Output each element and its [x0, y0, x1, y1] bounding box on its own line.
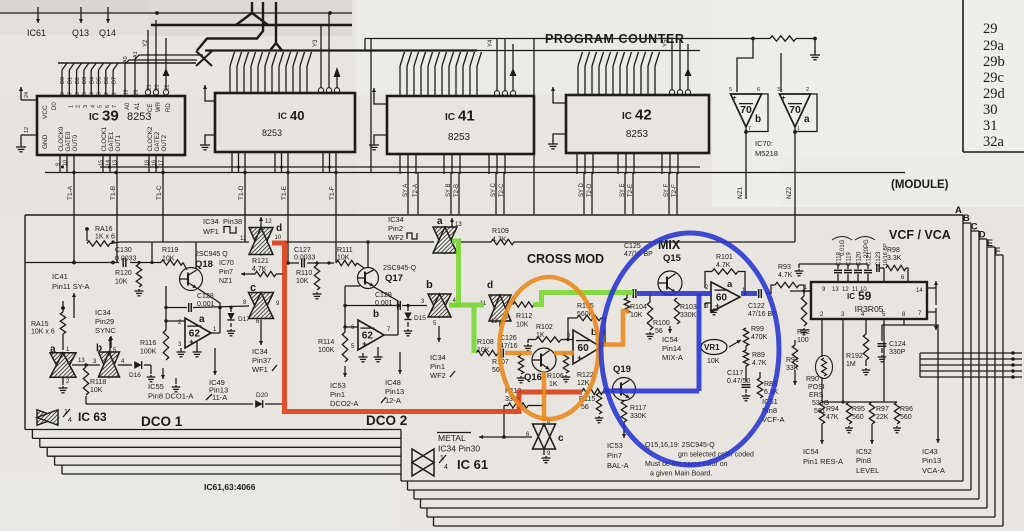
- svg-text:56: 56: [581, 404, 589, 411]
- svg-text:23: 23: [154, 84, 160, 90]
- svg-text:12: 12: [24, 127, 30, 133]
- svg-text:330P: 330P: [889, 349, 906, 356]
- IC U59 pin14 arrow: [927, 281, 938, 305]
- text IC49 Pin13 11-A: [206, 378, 228, 402]
- net label SYB: [446, 183, 452, 197]
- wire bus mid horizontal: [205, 49, 477, 51]
- svg-text:R101: R101: [716, 254, 733, 261]
- op-amp U62b: [358, 309, 384, 350]
- IC U40 body: [215, 93, 355, 152]
- text IC48 Pin13 12-A: [381, 378, 404, 405]
- svg-text:GATE2: GATE2: [154, 131, 161, 151]
- switch U34a top: [433, 216, 462, 253]
- text IC34 Pin29 SYNC: [95, 308, 116, 335]
- bus junction dots: [61, 166, 338, 175]
- resistor R119: [161, 247, 183, 265]
- op-amp U60a pins: [705, 285, 746, 310]
- svg-text:0.0033: 0.0033: [115, 256, 137, 263]
- svg-text:4.7K: 4.7K: [778, 272, 793, 279]
- capacitor C125: [624, 243, 653, 298]
- text IC41 Pin11 SY-A: [52, 272, 90, 291]
- svg-text:8: 8: [60, 92, 66, 95]
- resistor R98: [886, 247, 908, 282]
- svg-text:C130: C130: [115, 247, 132, 254]
- svg-text:70: 70: [789, 104, 801, 116]
- list of sheet numbers: [983, 21, 1006, 150]
- orange highlight path BAL a: [505, 351, 574, 356]
- resistor R118: [83, 367, 106, 395]
- wire U59 pin5 down: [883, 319, 885, 402]
- net label T1-D: [238, 185, 245, 200]
- svg-text:56: 56: [655, 328, 663, 335]
- svg-text:D7: D7: [111, 77, 117, 84]
- wire DCO2 input: [286, 261, 334, 265]
- wire IC70b pin5 riser: [737, 39, 753, 93]
- svg-text:12K: 12K: [577, 380, 590, 387]
- wire top long horizontal: [365, 38, 753, 40]
- svg-text:T1-C: T1-C: [156, 185, 163, 200]
- svg-text:330K: 330K: [630, 413, 647, 420]
- svg-text:32a: 32a: [983, 134, 1005, 150]
- svg-text:IC: IC: [89, 112, 99, 123]
- capacitor C124: [878, 325, 906, 362]
- resistor R112: [513, 302, 534, 329]
- svg-text:3: 3: [83, 105, 89, 108]
- wire IC53 arrow: [343, 366, 347, 377]
- svg-text:IC54: IC54: [803, 447, 819, 456]
- ground U62a inputs: [172, 342, 202, 392]
- svg-text:R192: R192: [846, 353, 863, 360]
- transistor Q19: [613, 364, 636, 401]
- svg-text:T1-B: T1-B: [110, 186, 117, 200]
- svg-text:C126: C126: [500, 335, 517, 342]
- svg-text:D5: D5: [97, 77, 103, 84]
- resistor R102: [524, 324, 573, 351]
- svg-text:C129: C129: [375, 292, 392, 299]
- svg-text:12-A: 12-A: [385, 396, 401, 405]
- resistor R110: [296, 263, 322, 299]
- IC U59 bottom pin numbers: [820, 312, 906, 318]
- svg-text:D2: D2: [75, 77, 81, 84]
- svg-text:IC: IC: [278, 111, 288, 121]
- wire DCO1 input: [25, 242, 161, 264]
- svg-text:IC: IC: [622, 111, 632, 122]
- svg-text:+: +: [362, 340, 367, 349]
- svg-text:T1-F: T1-F: [329, 186, 336, 200]
- svg-text:IC54: IC54: [662, 335, 678, 344]
- IC U41 VCC pin: [372, 88, 387, 104]
- svg-text:D15: D15: [414, 315, 426, 322]
- IC U42 control pins: [669, 39, 691, 95]
- net label SYF: [664, 183, 670, 197]
- svg-text:IC61,63:4066: IC61,63:4066: [204, 482, 256, 492]
- svg-text:LEVEL: LEVEL: [856, 466, 879, 475]
- text IC43 Pin13 VCA-A: [922, 447, 945, 475]
- IC U39 bottom pin wires: [60, 155, 163, 263]
- svg-text:7: 7: [112, 105, 118, 108]
- svg-text:GATE0: GATE0: [65, 131, 72, 151]
- resistor R91: [786, 340, 799, 385]
- op-amp U60b: [573, 327, 601, 364]
- svg-text:10: 10: [275, 235, 282, 241]
- resistor R92: [797, 291, 810, 344]
- wire SYNC arrow up: [72, 293, 76, 318]
- wire U62b output: [384, 334, 398, 336]
- svg-text:R119: R119: [162, 247, 178, 254]
- svg-text:CLOCK0: CLOCK0: [58, 126, 65, 151]
- svg-text:D1: D1: [68, 77, 74, 84]
- svg-text:d: d: [276, 223, 282, 234]
- wire D-bus (thick) to IC39: [58, 62, 196, 64]
- wire bus junction dot: [155, 11, 332, 15]
- svg-text:C117: C117: [727, 370, 743, 377]
- wire U34c out arrow: [259, 320, 263, 345]
- svg-text:R122: R122: [577, 372, 594, 379]
- IC U41 data pin fan: [400, 52, 482, 96]
- svg-text:NZ2: NZ2: [786, 186, 793, 199]
- op-amp U62b pins: [351, 325, 391, 350]
- svg-text:2: 2: [104, 92, 110, 95]
- resistor R108: [476, 339, 498, 356]
- IC U40 GND pin: [200, 135, 215, 150]
- svg-text:Q17: Q17: [385, 273, 403, 284]
- svg-text:8253: 8253: [262, 128, 282, 138]
- svg-text:Pin29: Pin29: [95, 317, 114, 326]
- wire IC55 arrow: [161, 368, 165, 379]
- svg-text:D: D: [979, 230, 986, 241]
- svg-text:IR3R05: IR3R05: [855, 304, 884, 314]
- svg-text:IC52: IC52: [856, 447, 872, 456]
- svg-text:6: 6: [105, 105, 111, 108]
- svg-text:C122: C122: [748, 303, 765, 310]
- IC U42 VCC pin: [551, 87, 566, 103]
- IC U42 body: [566, 95, 709, 153]
- svg-text:MIX-A: MIX-A: [662, 353, 683, 362]
- svg-text:10K: 10K: [337, 255, 350, 262]
- svg-text:A0: A0: [123, 56, 129, 63]
- net NZ2: [786, 132, 795, 242]
- svg-text:11-A: 11-A: [212, 393, 227, 402]
- wire bus crossover X: [196, 51, 212, 66]
- capacitor C129: [375, 292, 400, 310]
- IC U39 label: [89, 108, 151, 125]
- wire U62a output: [211, 332, 220, 334]
- IC U41 body: [387, 96, 534, 154]
- IC U59 pin1 wire: [790, 290, 811, 292]
- resistor R122: [577, 372, 603, 395]
- resistor R106: [547, 353, 570, 388]
- svg-text:NZ1: NZ1: [737, 186, 744, 199]
- blue ellipse around MIX: [601, 233, 779, 465]
- switch U34d: [249, 223, 282, 255]
- capacitor C126: [500, 335, 518, 358]
- switch U63b pins: [93, 337, 125, 365]
- svg-text:+: +: [189, 338, 194, 347]
- resistor above IC70: [751, 36, 817, 41]
- switch U34d2 pins: [480, 300, 516, 327]
- svg-text:IC 61: IC 61: [457, 457, 488, 472]
- svg-text:Q14: Q14: [99, 28, 116, 38]
- resistor R94: [819, 402, 839, 444]
- svg-text:IC41: IC41: [52, 272, 68, 281]
- IC U39 VCC rotated label: [42, 105, 49, 119]
- svg-text:c: c: [250, 282, 256, 294]
- svg-text:R98: R98: [887, 247, 900, 254]
- svg-text:1: 1: [68, 105, 74, 108]
- wire U59 pin3 down: [841, 319, 844, 404]
- svg-text:Pin1: Pin1: [330, 390, 345, 399]
- svg-text:D0: D0: [60, 77, 66, 84]
- svg-text:VCA-A: VCA-A: [922, 466, 945, 475]
- IC U39 pin24 VCC: [19, 87, 37, 100]
- net label T1-B: [110, 186, 117, 200]
- net label SYA: [403, 184, 409, 197]
- svg-text:R97: R97: [876, 406, 889, 413]
- svg-text:10K x 6: 10K x 6: [31, 329, 55, 336]
- svg-text:100: 100: [797, 337, 809, 344]
- svg-text:IC61: IC61: [27, 28, 46, 38]
- wire counter output bus 2: [100, 166, 700, 168]
- svg-text:Pin1: Pin1: [430, 362, 445, 371]
- svg-text:+: +: [715, 302, 720, 311]
- net label T2-E: [628, 184, 634, 197]
- diode D20 wire: [86, 392, 282, 408]
- switch U63 quarter: [37, 410, 58, 426]
- wire bus mid horizontal 2: [477, 50, 700, 52]
- IC U41 label: [445, 108, 475, 144]
- wire data bus riser 1: [236, 2, 268, 25]
- wire data bus jog: [197, 2, 263, 51]
- svg-text:10K: 10K: [516, 322, 529, 329]
- svg-text:1K x 6: 1K x 6: [95, 234, 115, 241]
- wire RA16 to U34d: [110, 240, 434, 243]
- IC U42 bottom pin wires: [577, 153, 678, 174]
- title MIX: [658, 238, 681, 252]
- svg-text:Pin7: Pin7: [219, 269, 233, 276]
- net label T2-D: [587, 183, 593, 197]
- svg-text:0.001: 0.001: [197, 301, 215, 308]
- svg-text:56: 56: [492, 367, 500, 374]
- svg-text:RA15: RA15: [31, 321, 49, 328]
- title VCF VCA: [889, 228, 951, 242]
- svg-text:R110: R110: [296, 270, 312, 277]
- IC U41 control pins: [494, 39, 516, 96]
- switch U61c: [533, 424, 565, 449]
- IC U41 bottom pin wires: [400, 154, 505, 174]
- capacitor C127: [294, 247, 316, 268]
- svg-text:D0: D0: [52, 102, 58, 110]
- svg-text:3.3K: 3.3K: [887, 255, 902, 262]
- net NZ1: [737, 132, 746, 199]
- svg-text:47K: 47K: [826, 414, 839, 421]
- svg-text:c: c: [558, 433, 564, 444]
- svg-text:B: B: [963, 213, 970, 224]
- module sheet A left border: [24, 215, 26, 430]
- svg-text:R104: R104: [630, 304, 647, 311]
- svg-text:IC 63: IC 63: [78, 410, 107, 424]
- svg-text:8253: 8253: [448, 132, 471, 143]
- capacitor C117: [727, 366, 751, 401]
- svg-text:R118: R118: [90, 379, 106, 386]
- text IC70 Pin7 NZ1: [219, 260, 234, 285]
- IC U59 side pin numbers: [804, 285, 923, 317]
- IC U39 data pins D0-D7: [60, 63, 118, 96]
- svg-text:R116: R116: [140, 340, 156, 347]
- svg-text:IC43: IC43: [922, 447, 938, 456]
- svg-text:1M: 1M: [846, 361, 856, 368]
- capacitor C123: [876, 243, 889, 282]
- svg-text:a: a: [437, 216, 443, 227]
- wire resistors bus: [822, 401, 897, 403]
- vertical separator wire a: [370, 39, 372, 173]
- svg-text:A: A: [955, 205, 962, 216]
- list box border: [963, 0, 1024, 152]
- text METAL IC34 Pin30: [437, 433, 480, 454]
- svg-text:29a: 29a: [983, 38, 1005, 54]
- svg-text:VCF-A: VCF-A: [762, 415, 785, 424]
- svg-text:IC34: IC34: [252, 347, 268, 356]
- svg-text:DCO2-A: DCO2-A: [330, 399, 358, 408]
- svg-text:3: 3: [97, 92, 103, 95]
- svg-text:R103: R103: [680, 304, 697, 311]
- svg-text:F: F: [995, 246, 1001, 257]
- svg-text:10K: 10K: [630, 312, 643, 319]
- wire module output lines: [920, 351, 1022, 379]
- wire Q17 collector: [367, 242, 369, 268]
- svg-text:10: 10: [860, 287, 867, 293]
- transistor Q15: [658, 253, 682, 295]
- svg-text:29: 29: [983, 21, 998, 37]
- text IC61 63 4066: [204, 482, 256, 492]
- svg-text:29c: 29c: [983, 70, 1004, 86]
- node Q13 feed arrow: [72, 7, 89, 38]
- svg-text:5: 5: [82, 92, 88, 95]
- svg-text:OUT0: OUT0: [72, 134, 79, 151]
- svg-text:METAL: METAL: [438, 433, 466, 443]
- resistor RA16: [85, 226, 115, 246]
- resistor R93: [766, 264, 811, 294]
- svg-text:CLOCK1: CLOCK1: [101, 126, 108, 151]
- title DCO 1: [141, 414, 183, 429]
- svg-text:T1-A: T1-A: [67, 185, 74, 200]
- op-amp U60a: [711, 279, 740, 312]
- svg-text:12: 12: [265, 219, 272, 225]
- svg-text:12: 12: [491, 319, 498, 325]
- svg-text:PROGRAM COUNTER: PROGRAM COUNTER: [545, 32, 685, 46]
- svg-text:R114: R114: [318, 339, 334, 346]
- switch U34d pins: [240, 217, 282, 242]
- svg-text:(MODULE): (MODULE): [891, 179, 949, 191]
- capacitors C118-C121: [795, 251, 873, 282]
- svg-text:RD: RD: [166, 103, 172, 112]
- title CROSS MOD: [527, 252, 604, 266]
- resistor R101: [705, 254, 747, 295]
- svg-text:IC34: IC34: [95, 308, 111, 317]
- svg-text:10K: 10K: [296, 278, 309, 285]
- switch U61 quarter: [412, 449, 434, 476]
- text IC34 Pin1 WF2: [430, 353, 455, 380]
- svg-text:POSI: POSI: [808, 384, 825, 391]
- text IC55 Pin8 DCO1-A: [148, 382, 193, 401]
- svg-text:39: 39: [102, 108, 119, 125]
- svg-text:Q15: Q15: [663, 253, 682, 264]
- svg-text:C123: C123: [876, 251, 882, 266]
- svg-text:D4: D4: [89, 77, 95, 84]
- wire counter output bus 1: [45, 172, 905, 174]
- green highlight path WF2 b: [449, 305, 484, 353]
- switch U34c: [249, 282, 274, 319]
- svg-text:Pin13: Pin13: [385, 387, 404, 396]
- IC U59 body: [811, 282, 927, 319]
- net Y4 label: [488, 39, 494, 47]
- capacitor C130: [115, 247, 137, 267]
- resistor R89: [743, 346, 766, 367]
- wire IC48 arrow: [398, 352, 402, 374]
- svg-text:Pin2: Pin2: [388, 224, 403, 233]
- IC U39 GND rotated label: [42, 134, 49, 149]
- svg-text:d: d: [487, 280, 493, 291]
- svg-text:10K: 10K: [115, 279, 128, 286]
- svg-text:R89: R89: [752, 352, 765, 359]
- switch U34b mid: [426, 279, 451, 317]
- svg-text:R96: R96: [900, 406, 913, 413]
- svg-text:R100: R100: [653, 320, 670, 327]
- svg-text:OUT1: OUT1: [115, 134, 122, 151]
- svg-text:D20: D20: [256, 392, 268, 399]
- svg-text:IC34: IC34: [388, 215, 404, 224]
- op-amp U60b pins: [567, 333, 607, 349]
- module sheet letters A-F: [955, 205, 1001, 257]
- wire C128 node: [166, 306, 249, 310]
- svg-text:C128: C128: [197, 293, 214, 300]
- switch U34c pins: [243, 300, 280, 325]
- svg-text:A1: A1: [133, 51, 139, 58]
- svg-text:D16: D16: [129, 372, 141, 379]
- svg-text:11: 11: [240, 236, 247, 242]
- blue highlight path MIX vert: [603, 294, 699, 392]
- text IC53 Pin1 DCO2-A: [330, 381, 358, 408]
- svg-text:21: 21: [146, 84, 152, 90]
- wire a-b link: [72, 363, 100, 367]
- svg-text:R109: R109: [492, 228, 509, 235]
- svg-text:IC34 Pin38: IC34 Pin38: [203, 217, 242, 226]
- IC U40 bottom pin wires: [232, 152, 336, 263]
- svg-text:40: 40: [290, 108, 304, 123]
- svg-text:41: 41: [458, 108, 475, 125]
- svg-text:D6: D6: [104, 77, 110, 84]
- svg-text:+: +: [577, 354, 582, 363]
- IC U42 GND pin: [548, 134, 566, 149]
- svg-text:42: 42: [635, 107, 652, 124]
- module sheets step connectors: [401, 430, 434, 527]
- svg-text:ERS: ERS: [809, 392, 824, 399]
- svg-text:Q15,16,19: 2SC945-Q: Q15,16,19: 2SC945-Q: [645, 442, 715, 449]
- green highlight path WF2 a: [449, 241, 459, 305]
- svg-text:+: +: [782, 95, 786, 102]
- net label T1-E: [281, 185, 288, 200]
- svg-text:WF2: WF2: [430, 371, 446, 380]
- resistor R105: [566, 303, 605, 344]
- svg-text:Pin8 DCO1-A: Pin8 DCO1-A: [148, 392, 193, 401]
- svg-text:47/16: 47/16: [500, 343, 518, 350]
- svg-text:R102: R102: [536, 324, 553, 331]
- net Y3 label: [313, 39, 319, 47]
- svg-text:CLOCK2: CLOCK2: [147, 126, 154, 151]
- svg-text:31: 31: [983, 118, 998, 134]
- svg-text:RA16: RA16: [95, 226, 113, 233]
- svg-text:T1-D: T1-D: [238, 185, 245, 200]
- wire U59 pin2 down: [821, 319, 823, 402]
